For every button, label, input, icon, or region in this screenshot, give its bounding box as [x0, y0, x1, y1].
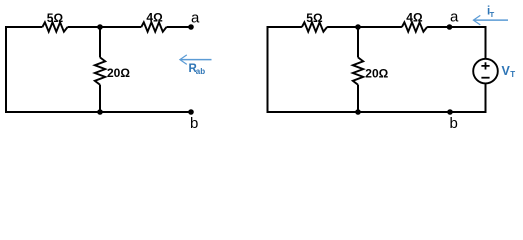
- node: terminal a (right circuit): [447, 24, 453, 30]
- wire: right vertical above source: [485, 26, 487, 59]
- node: junction bottom of 20ohm branch (left circuit): [97, 109, 103, 115]
- svg-text:V: V: [502, 64, 511, 78]
- node: terminal b (left circuit): [188, 109, 194, 115]
- svg-text:a: a: [191, 10, 200, 27]
- wire: right circuit top middle segment: [327, 26, 402, 28]
- resistor R 5ohm (right circuit): [302, 22, 327, 31]
- node: terminal b (right circuit): [447, 109, 453, 115]
- wire: right circuit top right segment: [427, 26, 486, 28]
- resistor R 4ohm (left circuit): [141, 22, 166, 31]
- resistor R 20ohm (left circuit, vertical): [95, 57, 105, 84]
- wire: right circuit middle branch lower: [357, 85, 359, 112]
- wire: left circuit top-left segment: [6, 26, 42, 28]
- svg-text:4Ω: 4Ω: [146, 11, 163, 25]
- wire: right vertical below source: [485, 83, 487, 112]
- svg-text:a: a: [450, 9, 459, 26]
- voltage source VT circle: [473, 59, 498, 84]
- node: junction top of 20ohm branch (left circuit): [97, 24, 103, 30]
- wire: right circuit left vertical edge: [267, 26, 269, 112]
- svg-text:ab: ab: [196, 67, 205, 76]
- voltage source minus sign: [481, 77, 489, 79]
- svg-text:20Ω: 20Ω: [365, 66, 388, 80]
- svg-text:b: b: [450, 115, 458, 132]
- wire: left circuit left vertical edge: [5, 26, 7, 112]
- resistor R 20ohm (right circuit, vertical): [353, 57, 363, 84]
- resistor R 4ohm (right circuit): [402, 22, 427, 31]
- svg-text:20Ω: 20Ω: [107, 66, 130, 80]
- svg-text:T: T: [490, 10, 495, 19]
- wire: left circuit bottom edge: [5, 111, 191, 113]
- resistor R 5ohm (left circuit): [42, 22, 67, 31]
- voltage source plus sign: [481, 62, 489, 69]
- svg-text:5Ω: 5Ω: [47, 11, 64, 25]
- arrow: Rab direction arrow (blue, pointing left): [181, 59, 212, 61]
- wire: left circuit top right segment to terminal a: [167, 26, 192, 28]
- wire: right circuit middle branch upper: [357, 27, 359, 57]
- wire: left circuit top middle segment: [68, 26, 142, 28]
- svg-text:5Ω: 5Ω: [306, 11, 323, 25]
- svg-text:4Ω: 4Ω: [406, 11, 423, 25]
- wire: left circuit middle branch lower: [99, 85, 101, 112]
- node: junction top of 20ohm branch (right circuit): [355, 24, 361, 30]
- node: terminal a (left circuit): [188, 24, 194, 30]
- wire: right circuit bottom edge: [267, 111, 487, 113]
- arrow: iT current arrow (blue, pointing left): [474, 19, 508, 21]
- node: junction bottom of 20ohm branch (right circuit): [355, 109, 361, 115]
- wire: left circuit middle branch upper: [99, 27, 101, 57]
- svg-text:b: b: [190, 115, 198, 132]
- wire: right circuit top-left segment: [268, 26, 302, 28]
- svg-text:T: T: [510, 70, 515, 79]
